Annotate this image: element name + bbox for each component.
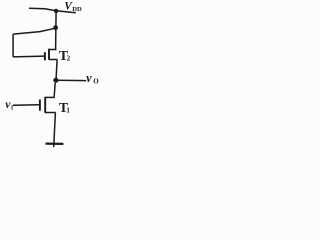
svg-text:2: 2 bbox=[67, 55, 71, 63]
ground bbox=[46, 142, 64, 145]
transistor T2 channel bar bbox=[48, 49, 50, 60]
transistor T2 gate bar bbox=[44, 52, 46, 60]
wire T1 gate lead bbox=[13, 104, 39, 107]
transistor T1 source lead bbox=[45, 112, 56, 114]
transistor T1 channel bar bbox=[44, 97, 46, 113]
transistor T1 drain lead bbox=[45, 96, 55, 98]
wire T2 drain vertical bbox=[55, 11, 58, 50]
node junction dot vO bbox=[53, 78, 58, 83]
wire T2 gate lead bbox=[13, 55, 44, 58]
node junction dot at VDD rail bbox=[54, 9, 58, 13]
wire T2 source vertical bbox=[56, 60, 57, 79]
transistor T2 source lead bbox=[49, 59, 57, 61]
svg-text:v: v bbox=[86, 71, 92, 85]
svg-text:1: 1 bbox=[66, 107, 70, 115]
svg-text:DD: DD bbox=[72, 6, 82, 13]
svg-text:O: O bbox=[93, 78, 99, 86]
wire feedback top (gate to drain) bbox=[13, 28, 55, 34]
transistor T1 gate bar bbox=[39, 100, 41, 111]
wire feedback left vertical bbox=[12, 34, 14, 57]
transistor T2 drain lead bbox=[49, 49, 57, 51]
wire VDD rail bbox=[29, 8, 76, 13]
node junction dot gate-drain tie bbox=[53, 25, 58, 30]
wire T1 source vertical bbox=[54, 113, 56, 148]
svg-text:I: I bbox=[11, 106, 14, 112]
wire vO output lead bbox=[56, 79, 86, 81]
wire T1 drain vertical bbox=[54, 83, 55, 98]
